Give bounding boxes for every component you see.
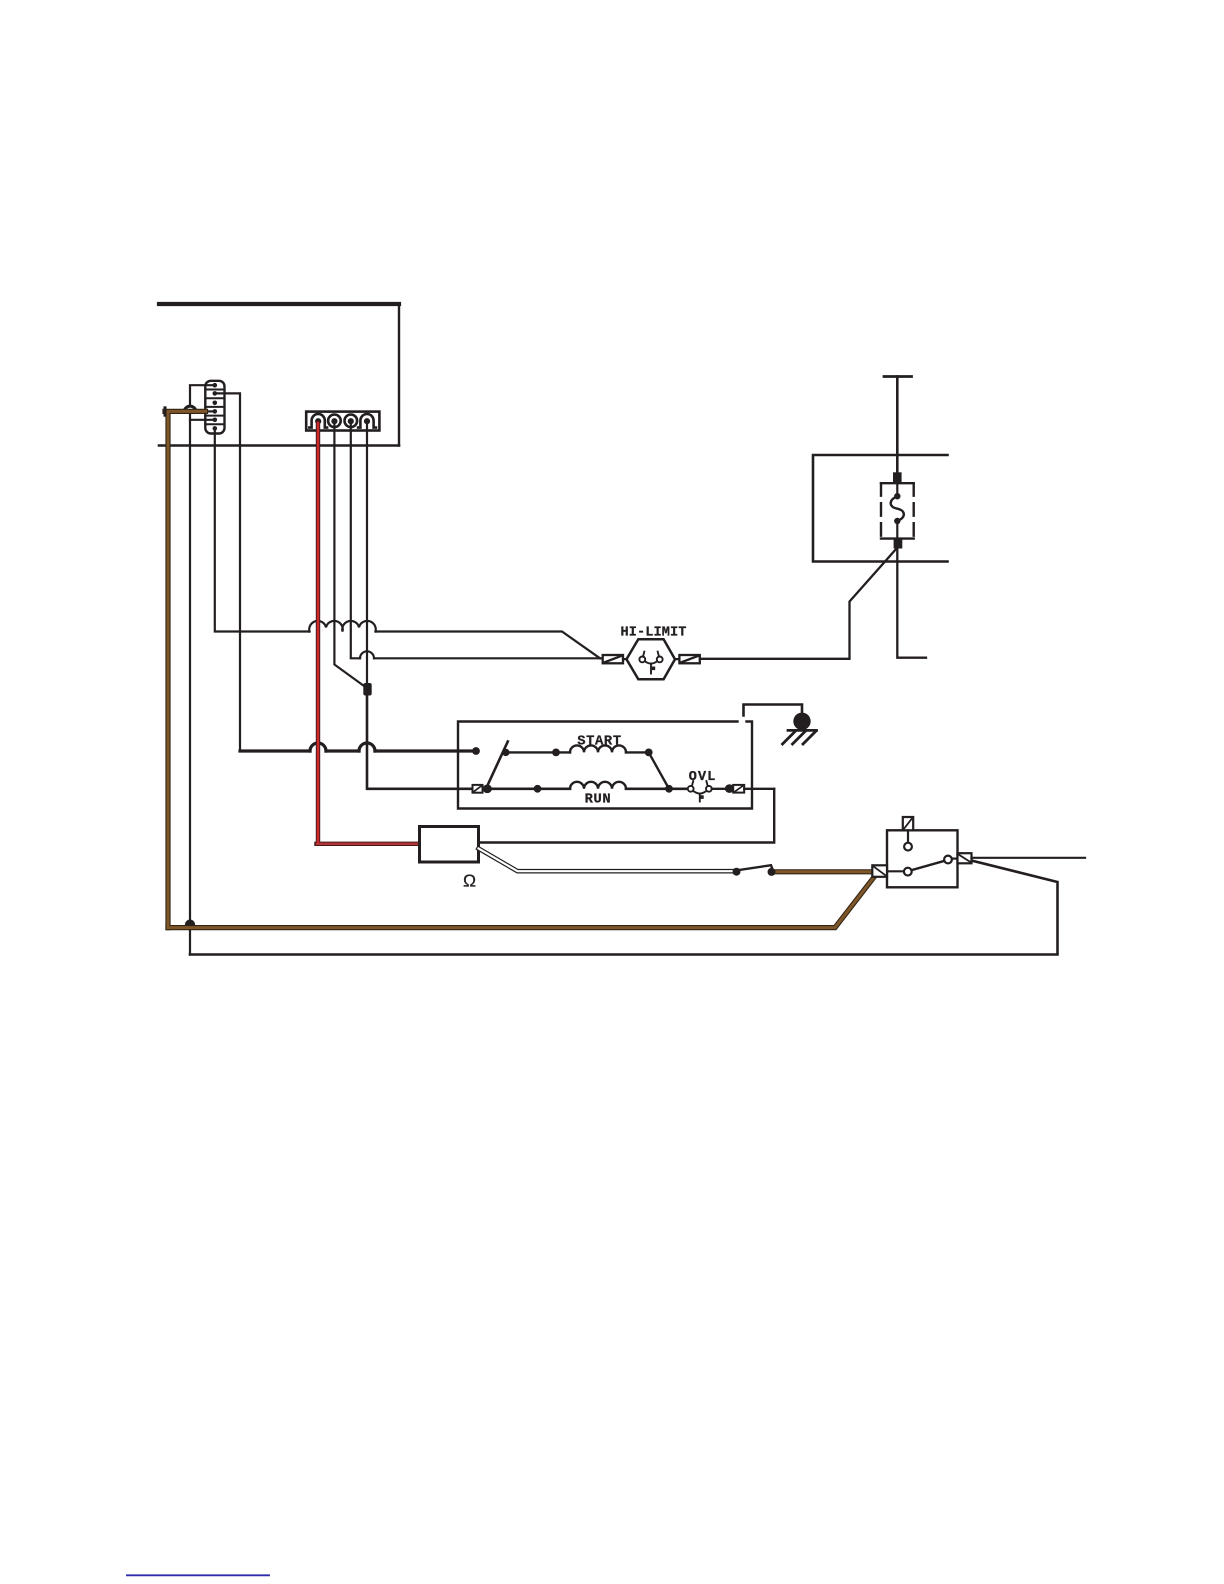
svg-text:Ω: Ω xyxy=(463,871,476,891)
svg-text:START: START xyxy=(577,734,621,749)
svg-text:RUN: RUN xyxy=(585,793,612,808)
